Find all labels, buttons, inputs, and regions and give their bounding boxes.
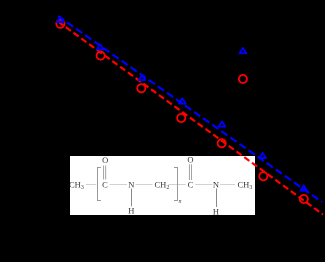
svg-text:N: N: [213, 180, 219, 190]
svg-text:n: n: [179, 199, 182, 205]
svg-text:O: O: [187, 155, 193, 165]
svg-text:N: N: [128, 180, 134, 190]
svg-text:H: H: [213, 206, 219, 216]
svg-text:O: O: [102, 155, 108, 165]
svg-text:H: H: [128, 205, 134, 215]
svg-text:C: C: [188, 180, 194, 190]
svg-text:C: C: [102, 180, 108, 190]
